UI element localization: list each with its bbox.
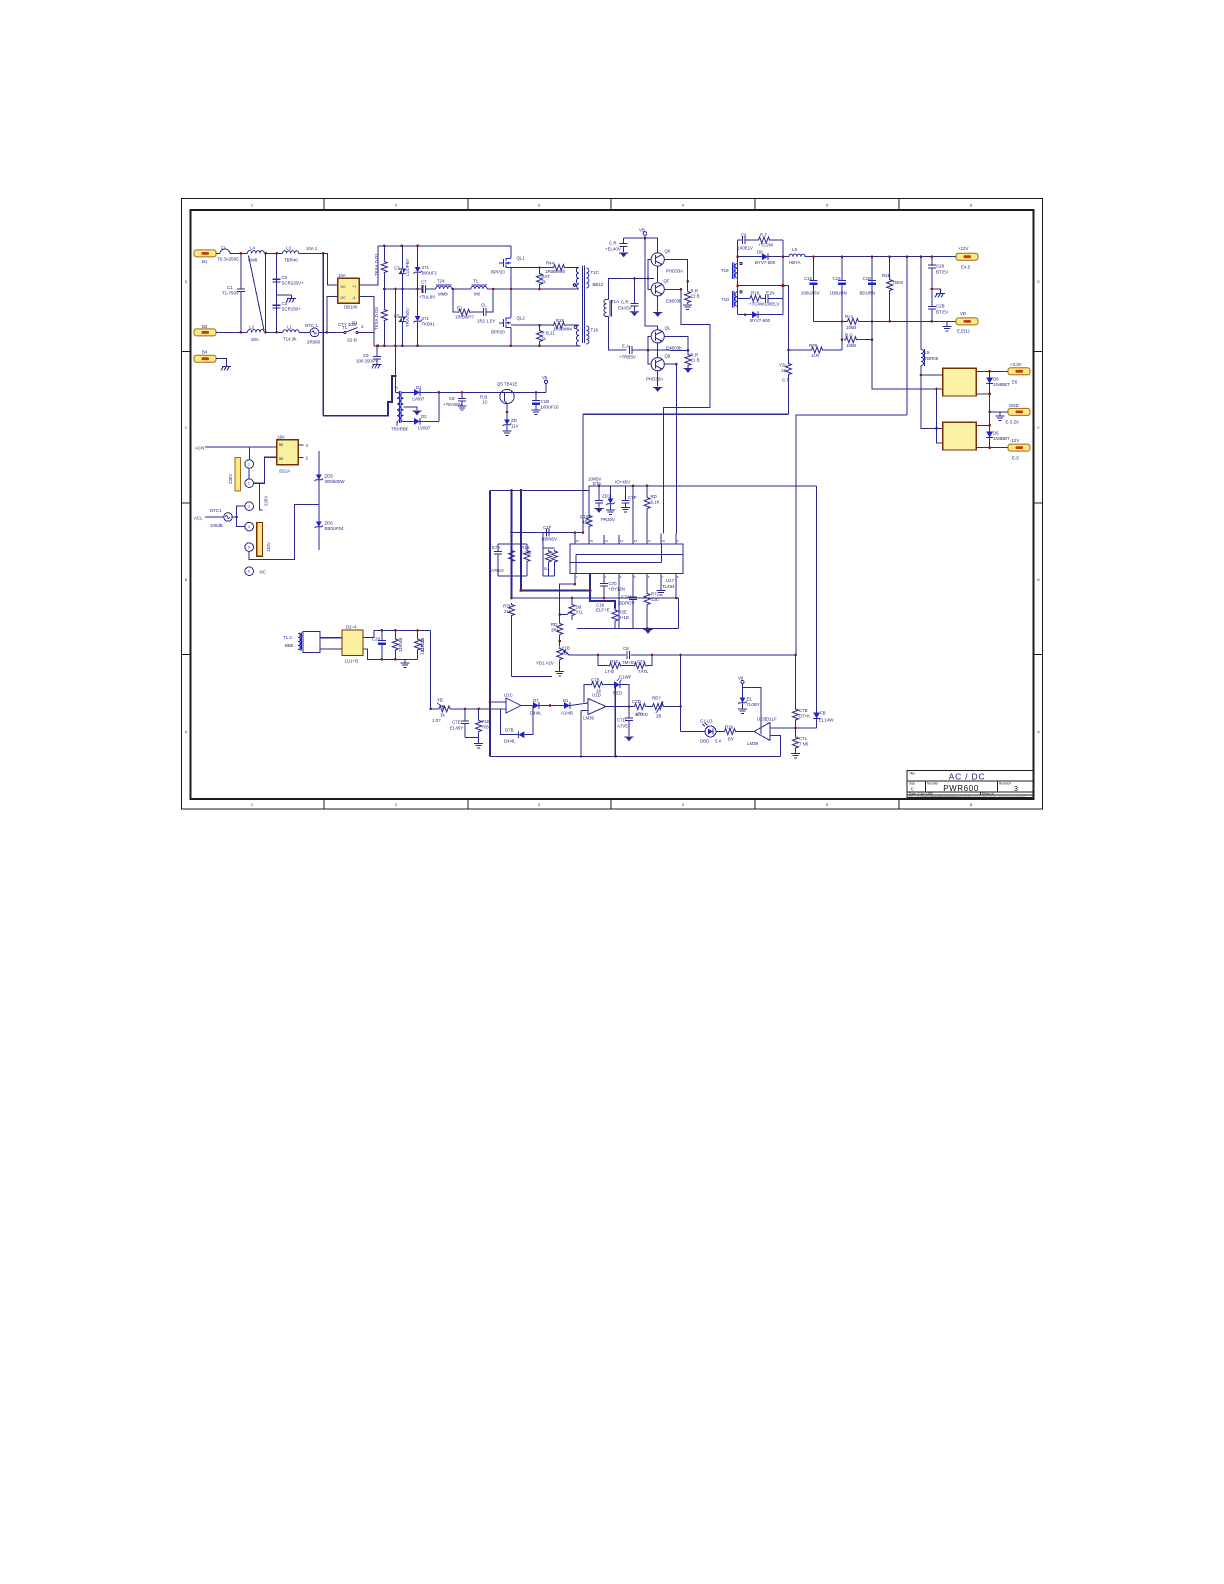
svg-text:Number: Number: [927, 782, 939, 786]
svg-text:GND: GND: [1009, 403, 1019, 408]
LED D-RED: [614, 679, 629, 707]
inductor L8: [783, 254, 805, 257]
svg-text:B8: B8: [279, 457, 283, 461]
svg-text:3: 3: [1014, 786, 1018, 793]
resistor RD: [644, 496, 650, 510]
wire gate feedback net: [583, 414, 789, 532]
wire Vcc rail: [490, 486, 817, 491]
capacitor CR2 to ground: [630, 279, 639, 317]
svg-text:+BY12N: +BY12N: [609, 587, 625, 592]
svg-text:230V: 230V: [228, 474, 233, 484]
svg-text:3?1: 3?1: [422, 316, 430, 321]
svg-text:2L: 2L: [542, 336, 547, 341]
wire sense bus x872: [872, 257, 943, 389]
svg-text:2L: 2L: [542, 279, 547, 284]
wire T1A lower to coupling cap: [609, 317, 627, 350]
wire comparator rail riser: [779, 736, 781, 757]
svg-text:C5: C5: [394, 314, 400, 319]
svg-text:E4,5: E4,5: [961, 265, 971, 270]
svg-text:11V: 11V: [511, 424, 519, 429]
svg-text:R1b: R1b: [725, 725, 734, 730]
svg-text:E4B03b: E4B03b: [666, 346, 682, 351]
wire switch to bridge AC2 riser: [358, 331, 374, 333]
svg-text:YB: YB: [437, 698, 443, 703]
svg-text:5 #: 5 #: [715, 739, 722, 744]
svg-text:R15: R15: [556, 318, 565, 323]
transformer T1A winding: [604, 300, 612, 317]
svg-text:RB?: RB?: [652, 696, 661, 701]
capacitor EA series: [629, 346, 649, 354]
svg-text:BY: BY: [728, 737, 734, 742]
diode D7: [521, 702, 564, 709]
regulator module U9: [943, 422, 977, 450]
transformer T1.2 sense: [298, 633, 301, 651]
svg-text:T1-750V: T1-750V: [222, 291, 239, 296]
svg-text:TRA750V: TRA750V: [405, 308, 410, 327]
svg-text:C1F: C1F: [543, 525, 552, 530]
svg-text:14: 14: [605, 539, 609, 543]
resistor R6A: [392, 630, 398, 659]
svg-text:HB7A: HB7A: [789, 260, 801, 265]
capacitor CR1 to ground: [619, 238, 645, 257]
node ACL split: [235, 516, 238, 519]
svg-text:AC / DC: AC / DC: [949, 772, 986, 782]
wire ACL to pin4: [237, 517, 245, 527]
svg-text:C7P: C7P: [628, 495, 637, 500]
svg-text:C.R: C.R: [621, 300, 629, 305]
svg-text:C8: C8: [449, 396, 455, 401]
inductor T1.2 series: [471, 285, 487, 289]
trimmer RB2: [651, 702, 681, 713]
resistor R7L: [644, 574, 650, 629]
wire ACL to pin3: [232, 506, 245, 517]
svg-text:RED: RED: [613, 691, 622, 696]
wire secondary mid tap: [738, 285, 783, 287]
wire top rail elbow to QL1 drain: [510, 246, 512, 258]
svg-text:1N4BBT: 1N4BBT: [993, 436, 1010, 441]
wire T1.2 secondary loop: [303, 632, 320, 653]
wire mid rail to transformer: [493, 288, 579, 290]
wire module output bus: [989, 371, 991, 447]
svg-text:C7A: C7A: [637, 659, 646, 664]
wire doubler bus: [318, 451, 320, 550]
wire base bus upper: [648, 260, 651, 290]
wire ACL to NTC: [205, 516, 224, 518]
svg-text:L1: L1: [287, 325, 292, 330]
ground return: [943, 321, 952, 331]
svg-text:LV007: LV007: [418, 426, 431, 431]
svg-text:ZD: ZD: [511, 418, 517, 423]
resistor R9: [783, 286, 842, 353]
svg-text:TBR05: TBR05: [925, 356, 939, 361]
inductor L5 output: [921, 257, 943, 429]
wire pin4 down: [618, 574, 620, 629]
wire dead-time net: [512, 532, 584, 534]
resistor R3 balance bottom: [381, 289, 387, 346]
svg-text:D7B: D7B: [505, 728, 514, 733]
bracket 220V: [260, 483, 263, 510]
wire analog ground rail: [577, 627, 679, 629]
transistor Q5 regulator: [500, 389, 514, 403]
wire sense net y598: [512, 597, 679, 599]
connector pin 3: [245, 502, 254, 511]
svg-text:B2: B2: [202, 324, 208, 329]
svg-text:ACL: ACL: [194, 516, 203, 521]
connector lug +12V: [956, 253, 978, 260]
svg-text:E1: E1: [457, 306, 463, 311]
svg-text:Tr: Tr: [394, 386, 399, 391]
capacitor C16: [838, 257, 846, 322]
resistor mid divider: [509, 549, 515, 563]
transformer T19 winding: [733, 262, 743, 279]
svg-text:L3: L3: [286, 246, 291, 251]
svg-text:E.A: E.A: [622, 344, 629, 349]
svg-text:1 0?: 1 0?: [432, 718, 441, 723]
wire lower base branch: [511, 324, 546, 326]
svg-text:C.T: C.T: [782, 378, 789, 383]
svg-text:OC: OC: [341, 296, 347, 300]
IC top pin stubs: [575, 486, 676, 544]
svg-text:R1B: R1B: [521, 545, 530, 550]
svg-text:21L: 21L: [504, 609, 512, 614]
zener Z1 top: [413, 246, 422, 289]
svg-text:ZD5: ZD5: [325, 474, 334, 479]
svg-text:D2~4: D2~4: [346, 625, 357, 630]
wire pin5 to doubler: [249, 504, 319, 559]
node GND output: [988, 411, 991, 414]
svg-text:1N4BBT: 1N4BBT: [993, 382, 1010, 387]
wire aux minus rail: [363, 649, 418, 659]
svg-text:E4B03b: E4B03b: [666, 299, 682, 304]
svg-text:R.G: R.G: [845, 333, 853, 338]
svg-text:C1B: C1B: [863, 276, 872, 281]
optocoupler IC2: [703, 723, 717, 737]
svg-text:30A: 30A: [251, 337, 259, 342]
capacitor C1W ref: [594, 486, 603, 513]
connector lug J1 (line): [194, 250, 216, 257]
svg-text:+TC2W: +TC2W: [758, 243, 774, 248]
svg-text:S2-B: S2-B: [347, 338, 357, 343]
bridge rectifier D2-4: [342, 630, 363, 656]
svg-text:12C: 12C: [651, 597, 659, 602]
resistor R7k: [509, 603, 553, 677]
svg-text:100dB: 100dB: [210, 523, 223, 528]
resistor RB11: [537, 325, 543, 346]
svg-text:7M+6V: 7M+6V: [622, 660, 636, 665]
svg-text:D2: D2: [421, 414, 427, 419]
svg-text:LV007: LV007: [412, 397, 425, 402]
svg-text:7L0BY: 7L0BY: [747, 702, 760, 707]
svg-text:4BL: 4BL: [562, 651, 570, 656]
svg-text:1B0URN: 1B0URN: [830, 291, 847, 296]
connector pin 2: [245, 479, 254, 488]
connector lug +3.3V: [1008, 368, 1030, 375]
svg-text:C16: C16: [833, 276, 842, 281]
resistor C7B loop: [584, 682, 614, 703]
wire QL output to resistor: [665, 336, 689, 350]
svg-text:SS1A: SS1A: [279, 469, 290, 474]
transistor Q9: [651, 358, 664, 371]
transistor Q6: [651, 253, 664, 266]
comparator UCB: [754, 723, 770, 741]
svg-text:U1C: U1C: [504, 693, 513, 698]
zener ZD6: [315, 522, 324, 529]
svg-text:LUUPBY: LUUPBY: [405, 258, 410, 276]
opamp U1C: [506, 698, 521, 713]
svg-text:C8: C8: [623, 646, 629, 651]
wire pin8 down: [675, 574, 677, 599]
wire secondary bottom: [403, 420, 414, 422]
wire ACN drop to pin1: [249, 447, 251, 460]
wire staircase to aux transformer: [323, 376, 395, 416]
capacitor C9 bus: [372, 346, 382, 369]
svg-text:S1: S1: [352, 320, 358, 325]
svg-text:1R/BW??: 1R/BW??: [455, 315, 474, 320]
svg-text:QL1: QL1: [517, 256, 526, 261]
wire opto to rail: [681, 731, 705, 733]
wire U8 output: [976, 370, 1008, 372]
wire L1 to NTC: [299, 331, 310, 333]
wire U1D output: [606, 706, 633, 708]
svg-text:D4I4L: D4I4L: [504, 739, 516, 744]
fuse holder bar 110V: [257, 522, 263, 556]
wire relay pin4: [298, 444, 303, 446]
svg-text:Size: Size: [909, 782, 915, 786]
wire U1D minus input: [581, 711, 588, 757]
wire AC-L1 vertical feed: [322, 253, 324, 415]
junction dots DC rails: [377, 245, 455, 348]
node secondary mid: [736, 284, 739, 287]
wire module input bus: [937, 389, 943, 443]
wire aux rail to trimmer: [430, 630, 432, 709]
svg-text:PHD33A: PHD33A: [666, 269, 683, 274]
wire bridge plus to top rail: [359, 246, 378, 285]
connector pin 1: [245, 460, 254, 469]
svg-text:MMb: MMb: [438, 292, 448, 297]
capacitor C20: [378, 630, 386, 659]
svg-text:T24: T24: [437, 279, 445, 284]
wire V6 reference to comparator: [743, 687, 762, 734]
fuse F1: [220, 249, 241, 253]
svg-text:M0: M0: [474, 292, 481, 297]
svg-text:QL2: QL2: [517, 316, 526, 321]
wire aux plus rail: [363, 630, 431, 637]
relay U3: [277, 440, 299, 465]
svg-text:100ELV: 100ELV: [764, 302, 779, 307]
ground pin7: [657, 574, 666, 595]
svg-text:BDRDV: BDRDV: [619, 601, 634, 606]
svg-text:+TRB5V: +TRB5V: [619, 355, 636, 360]
svg-text:A7V5: A7V5: [617, 724, 628, 729]
svg-text:18A: 18A: [277, 435, 285, 440]
connector lug -12V: [1008, 444, 1030, 451]
resistor RR upper: [683, 281, 692, 309]
svg-text:R B,11: R B,11: [542, 331, 556, 336]
wire Q9 output to IC: [665, 363, 677, 365]
inductor L3: [283, 251, 299, 254]
common-mode choke L4: [248, 251, 265, 333]
diode D6: [986, 371, 993, 412]
svg-text:E,E(1): E,E(1): [957, 329, 970, 334]
svg-text:R7k: R7k: [503, 604, 512, 609]
svg-text:5: 5: [248, 546, 250, 550]
svg-text:C7D: C7D: [617, 718, 626, 723]
capacitor C7P: [621, 486, 630, 512]
connector pin 4: [245, 522, 254, 531]
wire J4 to ground: [216, 359, 227, 367]
svg-text:NTC1: NTC1: [210, 508, 222, 513]
svg-text:R#9: R#9: [809, 343, 818, 348]
wire T24 to T1 primary: [452, 288, 471, 290]
svg-text:EL45Y: EL45Y: [450, 726, 463, 731]
svg-text:D6: D6: [993, 431, 999, 436]
resistor C7D: [633, 704, 651, 710]
svg-text:C3: C3: [394, 266, 400, 271]
svg-text:1X0ELV: 1X0ELV: [737, 246, 753, 251]
svg-text:C7: C7: [421, 280, 427, 285]
svg-text:E7A: E7A: [492, 545, 500, 550]
svg-text:D8: D8: [757, 250, 763, 255]
junction dots halfbridge: [492, 266, 541, 347]
transformer Tr aux: [395, 391, 403, 426]
svg-text:100UF16: 100UF16: [541, 405, 560, 410]
svg-text:1K: 1K: [781, 368, 786, 373]
svg-text:EB0UF04: EB0UF04: [325, 526, 345, 531]
wire Q9 emitter ground: [653, 371, 662, 392]
transistor QF: [651, 283, 664, 296]
wire analog bottom rail: [490, 755, 780, 757]
switch S1: [344, 328, 358, 334]
svg-text:+TC4W: +TC4W: [749, 302, 765, 307]
capacitor C3: [273, 305, 281, 308]
svg-text:12: 12: [634, 539, 638, 543]
svg-text:220V: 220V: [264, 496, 269, 506]
svg-text:C7D: C7D: [632, 699, 641, 704]
regulator module U8: [943, 368, 977, 396]
svg-text:T19: T19: [721, 268, 729, 273]
svg-text:YD1 A2V: YD1 A2V: [536, 661, 554, 666]
svg-text:R44: R44: [546, 261, 555, 266]
svg-text:1U1+B: 1U1+B: [345, 659, 359, 664]
wire DC mid rail: [384, 288, 422, 290]
svg-text:E1: E1: [747, 697, 753, 702]
svg-text:TRVRBF: TRVRBF: [391, 427, 409, 432]
svg-text:ZD6: ZD6: [325, 521, 334, 526]
terminal V5: [544, 380, 547, 392]
resistor R44: [546, 265, 579, 271]
wire DC minus to aux transformer: [394, 346, 396, 376]
svg-text:21 B: 21 B: [691, 358, 700, 363]
svg-text:LM39: LM39: [583, 716, 595, 721]
capacitor E1N: [763, 294, 784, 302]
ground analog: [643, 630, 652, 634]
wire comparator output: [737, 731, 754, 733]
diac C5 bottom: [399, 289, 406, 346]
transistor QL1 mosfet: [499, 258, 511, 268]
wire Q6 output to resistor: [665, 260, 688, 282]
svg-text:V6: V6: [738, 676, 744, 681]
svg-text:TKXA.D D1: TKXA.D D1: [374, 253, 379, 276]
wire QL emitter to Q9: [657, 343, 659, 357]
wire tap bus x907: [906, 257, 908, 416]
svg-text:D1: D1: [563, 698, 569, 703]
svg-text:+TEA50V: +TEA50V: [443, 402, 462, 407]
resistor Y2L divider: [786, 350, 792, 414]
svg-text:E4A5V: E4A5V: [618, 306, 632, 311]
svg-text:C1B: C1B: [541, 399, 550, 404]
wire U1C plus input: [490, 701, 506, 703]
zener Z2 bottom: [413, 289, 422, 346]
svg-text:R18: R18: [751, 291, 760, 296]
svg-text:+1: +1: [352, 285, 356, 289]
node AC-L1 junction: [322, 252, 325, 255]
svg-text:3RL: 3RL: [551, 628, 560, 633]
svg-text:ETA: ETA: [593, 481, 601, 486]
svg-text:D7+K: D7+K: [799, 714, 810, 719]
svg-text:Q9: Q9: [665, 354, 671, 359]
diode D9 output: [738, 311, 783, 318]
svg-text:R2E: R2E: [619, 610, 628, 615]
wire Vref left bus: [489, 490, 491, 756]
diode FB: [813, 713, 820, 729]
zener ZD5: [315, 475, 324, 482]
svg-text:110 R.B: 110 R.B: [420, 639, 425, 655]
trimmer Dd: [560, 598, 575, 620]
ground tap C28: [932, 289, 945, 298]
svg-text:LM39: LM39: [747, 741, 759, 746]
svg-text:Q1W: Q1W: [580, 514, 591, 519]
svg-text:C.R: C.R: [609, 241, 617, 246]
svg-text:A1I4B: A1I4B: [561, 711, 573, 716]
capacitor C1B: [532, 392, 541, 414]
svg-text:BYV7-600: BYV7-600: [750, 318, 771, 323]
wire output block right bus: [782, 240, 784, 315]
svg-text:D7: D7: [533, 698, 539, 703]
svg-text:T1.2: T1.2: [283, 635, 292, 640]
wire choke to node: [264, 252, 282, 254]
svg-text:File: C:\ADVSCH\PWR600\PWR6: File: C:\ADVSCH\PWR600\PWR600AC.SCH xxxx…: [909, 795, 1026, 799]
svg-text:TKXA.D D3: TKXA.D D3: [374, 307, 379, 330]
svg-text:L5: L5: [925, 350, 930, 355]
svg-text:BYV7-600: BYV7-600: [755, 260, 776, 265]
wire comparator plus input: [770, 727, 817, 729]
svg-text:C7B: C7B: [799, 708, 808, 713]
svg-text:ZD1: ZD1: [602, 494, 611, 499]
svg-text:QL: QL: [665, 326, 671, 331]
node aux primary: [394, 375, 397, 378]
thermistor NTC2: [224, 513, 233, 522]
wire comparator minus input: [770, 736, 780, 757]
opamp U1D: [588, 699, 606, 715]
wire feedback thick: [521, 490, 615, 608]
wire trimmer input: [431, 703, 506, 712]
node VB: [644, 237, 647, 240]
svg-text:QF: QF: [664, 279, 670, 284]
resistor RG row: [842, 321, 872, 350]
svg-text:NC: NC: [260, 570, 266, 575]
svg-text:C7E: C7E: [452, 720, 461, 725]
zener ZD1: [606, 486, 615, 515]
svg-text:0.7W: 0.7W: [521, 551, 532, 556]
resistor Q1W: [586, 514, 592, 528]
wire GND lug: [990, 411, 1008, 413]
svg-text:T1b: T1b: [591, 328, 599, 333]
svg-text:7ATL: 7ATL: [638, 669, 649, 674]
svg-text:CM8: CM8: [248, 258, 258, 263]
resistor R2 balance top: [381, 246, 387, 289]
svg-text:R2B: R2B: [882, 273, 891, 278]
wire output block left bus: [737, 240, 739, 315]
